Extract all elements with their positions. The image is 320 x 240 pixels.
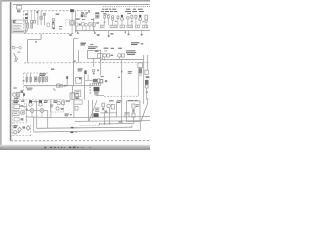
page top edge band [0,0,150,2]
wire from regulator to alternator feed [19,104,26,123]
bus y121.3 [75,120,150,123]
wire vertical x121 long [121,60,123,121]
box with dark tab [75,77,81,83]
junction marks on dashed edge [23,80,25,96]
relay box K1 [88,50,103,58]
wire vertical x143 [143,55,145,104]
lamp socket row group1 [103,15,123,21]
inline connector marks on bus lines [70,127,73,133]
legend box [12,20,25,33]
inline connector on bus [57,84,67,87]
lamp text group2 [125,9,144,14]
lamp text group1 [101,9,117,14]
relay box text rows [88,46,98,49]
label tick on rail [36,11,38,13]
headlamp label text right [131,42,143,45]
arrow connector mark [59,26,62,29]
dashed enclosure around C2 [66,19,75,25]
battery terminal tick [18,132,20,133]
brake unit chain [145,76,149,100]
resistor block right [138,63,143,73]
headlight note text [44,100,48,103]
sheet border bottom dashed line [11,140,150,142]
wire stub x144 [147,98,149,103]
wire vertical x147 [147,55,149,70]
note text top-left margin [13,20,16,23]
fuse F2 [30,74,32,84]
wire main vertical left trunk [28,34,41,63]
ground chevron 1 [76,31,79,34]
row text labels [76,19,94,20]
lamp lead stubs to connector band [105,18,146,25]
starter solenoid text [13,87,23,92]
battery circle [14,131,17,134]
page bottom light band [0,145,150,147]
coil box with text [13,110,19,115]
headlight HL2 [39,100,42,106]
flasher note text block [126,50,136,55]
ignition switch assembly [25,13,28,23]
pressure switch cluster [100,76,107,83]
main feed bus [24,85,92,87]
hazard flasher TF2 [118,54,125,57]
turn flasher TF1 [103,54,113,57]
trailer bus line 1 [37,125,132,128]
glow plug text [13,100,24,103]
ignition distributor diamond [18,127,22,131]
arrow mark below bus [53,88,55,90]
tick label on trunk [35,41,37,42]
wire vertical x72 lower [72,86,74,93]
dash-panel boundary dashed rail [24,33,74,35]
fuse F5 [42,74,44,84]
label on bus [119,121,123,122]
sender unit cluster [95,12,99,18]
marks right of diamond [22,126,25,128]
indicator circle right [139,73,141,75]
wire vertical x88.4 [87,100,89,121]
engine box dashed [13,100,51,136]
break squiggles [75,127,77,132]
text above sender [109,100,121,103]
license lamp text [65,114,72,117]
wire diagonal long right [141,103,148,122]
resistor R1 vertical [27,23,29,30]
wire vertical x100 [99,60,101,76]
fuel gauge chain left [102,103,107,112]
turn flasher text 1 [104,48,122,52]
wire vertical x78 [78,50,80,63]
wire harness trunk vertical [74,39,79,86]
wire light vertical x138 [137,73,139,96]
cab box outline [74,100,82,110]
dark connector block [93,113,98,117]
tick on x121 [118,77,120,78]
page bottom mid band [0,146,150,148]
oil sender text [14,117,23,121]
key switch S2 [14,52,21,62]
flasher lead stubs [105,57,120,59]
label tick 2A right [97,34,100,36]
headlight HL1 [29,100,32,106]
fuse F6 with cross [45,77,48,82]
note text small left [51,69,54,71]
wire vertical x33 down [33,117,35,132]
sensor circle [92,69,99,74]
tail harness text [78,68,83,71]
diode D1 dark marks [84,70,87,74]
wire stub [76,18,81,20]
fuse row label [40,73,46,76]
switch S1 block [33,20,35,23]
horn H1 [12,46,21,49]
page bottom dark band [0,148,150,150]
dashed stub above trailer lines [80,124,100,126]
ground stub 2 [128,31,130,36]
sheet border top line [13,3,150,5]
battery text [13,125,17,128]
control box text [75,90,81,99]
resistor R2 vertical [31,20,33,28]
bus note text [27,88,33,91]
fuse F4 [39,74,41,84]
lamp drop wires [32,112,42,117]
wire vertical x47 down [47,111,49,129]
gauge block G1 [81,14,86,17]
alternator A1 [21,110,25,114]
park lamp P2 crossed circle [40,109,44,113]
wire vertical right of relay [93,58,95,66]
connector stack right-mid [92,79,100,86]
marker lamp M3 [56,107,64,110]
marker lamp text mid [53,100,70,103]
coil text rows [25,30,28,33]
starter motor ST [13,92,20,99]
rear bus line [50,116,107,119]
ground stub 1 under lighting rail [108,31,114,37]
lamp L1 with lead [52,13,59,29]
small block right [145,70,148,74]
node rail dashed right-mid [104,95,138,97]
page left edge band [0,0,2,150]
wire vertical x37 down [36,102,38,129]
indicator box right [47,23,50,26]
sender circle [107,104,114,109]
bus rail dotted top-right [103,6,150,8]
tiny label left of lamp [25,109,27,110]
resistor pack box right [126,100,140,121]
marker lamp M2 [57,101,65,105]
ground chevron 2 [94,31,96,33]
wire vertical to rail [75,11,77,31]
bus rail dashed top-left [23,10,92,12]
label tick 2A left [69,34,72,36]
bulb connector hatched row [100,25,148,28]
fuse F3 [34,77,37,82]
dome lamp dashed enclosure [50,100,63,112]
meter block M1 [38,11,46,25]
bus y116.9 [107,116,150,118]
wire vertical x50.9 [50,100,52,118]
wire between headlights with break [32,101,39,103]
park lamp P1 crossed circle [30,109,34,113]
junction label dark on rail [70,9,74,12]
wire vertical x92.4 [91,100,93,118]
note text right-mid [128,71,132,74]
side tap box [125,112,129,117]
arrow mark left end of rail [125,31,126,33]
footer page number marks [44,146,91,148]
ground stub 3 [141,30,143,35]
bus y112.8 [100,112,117,114]
wires linking park lamps [26,110,48,112]
lighting rail solid [75,29,150,31]
side text x50 [50,105,53,108]
wire vertical x73.9 [73,100,75,118]
harness boundary dashed rail mid [24,62,150,64]
connector block top-left [17,6,22,14]
distributor diamond 2 [26,126,30,131]
wire vertical x88 upper [85,74,93,80]
regulator box [14,104,23,108]
fuel pump circle [70,93,78,97]
gauge text G1 [81,12,88,13]
connector C2 block [70,21,75,25]
junction text right-mid-low [95,108,99,112]
tick on rail [89,10,90,13]
wire verticals bottom-right cluster [104,101,116,123]
drop wires from rail to dash cluster [28,11,35,20]
battery feed tick [66,76,68,86]
connector C9 dark block [94,87,104,96]
accessory rail solid [100,59,144,61]
tiny wire labels row [104,21,145,23]
front bus line [26,116,51,119]
wire vertical sender [93,18,95,31]
connector block with hatch [70,93,74,99]
pin marks column [90,83,91,93]
fuse F1 [26,74,28,84]
fuse panel dashed box [24,73,49,100]
trailer bus line 2 [34,122,141,132]
wire drop to connector C2 [71,12,73,33]
wire vertical x84 [84,75,86,100]
tick on dashed rail [74,60,76,62]
lamp socket row group2 [127,15,148,23]
instrument component row [76,22,100,26]
component row stubs to rail [77,26,94,31]
headlamp text high-low [81,43,94,46]
bus tick below [25,86,27,89]
wire diagonal bundle [89,100,97,121]
dash panel dashed box left edge [23,11,25,34]
sheet border left double line [9,2,10,141]
bus y123.8 with junction dots [99,121,134,125]
